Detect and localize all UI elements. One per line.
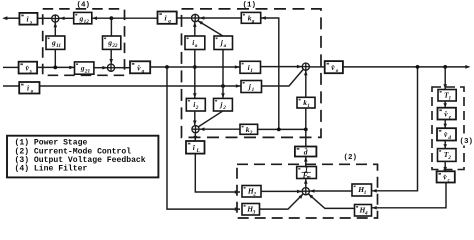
- wire H_2 to sumCM with arrow: [261, 190, 302, 192]
- svg-text:1: 1: [250, 68, 253, 74]
- wire v_d to T_2 with arrow: [444, 141, 446, 149]
- wire k_1 down to node D: [305, 108, 307, 129]
- wire node A to i_g box: [111, 17, 157, 19]
- wire F_m up to d-hat with arrow: [305, 157, 307, 167]
- wire g12 to sum1 with arrow: [60, 17, 74, 19]
- summer SCM: [302, 188, 309, 195]
- svg-text:(4): (4): [77, 2, 91, 10]
- wire i_1 to sumP2 with arrow: [261, 66, 303, 68]
- wire v_s to g21 with node B junction and arrow: [37, 66, 74, 68]
- svg-text:11: 11: [56, 43, 61, 49]
- wire row2 input: [3, 66, 19, 68]
- wire node A down to g22: [110, 18, 112, 36]
- node box v_o: [325, 61, 343, 74]
- gain box k_1: [297, 97, 315, 109]
- wire node A to g12 with arrow: [92, 17, 112, 19]
- gain box g12: [74, 12, 92, 24]
- wire k_a to sumP1 with arrow: [199, 17, 241, 19]
- gain box H_1: [352, 184, 372, 196]
- node box i_s: [19, 13, 37, 26]
- wire g21 to sum2 with arrow: [94, 67, 107, 69]
- wire v_o node down into T_1 with arrow: [444, 67, 446, 90]
- wire row3 i_o long line to j1 with junction at j-column and arrow: [40, 85, 242, 87]
- wire j_a diagonal to sumP1 with arrow: [198, 21, 223, 36]
- svg-text:1: 1: [449, 95, 452, 101]
- svg-text:2: 2: [447, 155, 451, 161]
- wire H_a right then diagonal to sumCM with arrow: [260, 194, 303, 209]
- wire g22 down to sum2 with arrow: [110, 49, 112, 64]
- wire j_2 diagonal down to sumP3: [198, 111, 222, 127]
- summer S1: [52, 15, 59, 22]
- node C junction: [277, 127, 281, 131]
- label (4): [77, 2, 91, 10]
- wire v_e to v_d with arrow: [444, 120, 446, 129]
- wire sumCM up to 1/F_m with arrow: [305, 179, 307, 188]
- gain box g21: [75, 62, 94, 74]
- gain box j_a: [214, 36, 233, 50]
- gain box k_a: [241, 12, 260, 24]
- svg-text:L: L: [196, 148, 200, 154]
- svg-text:g: g: [141, 68, 145, 74]
- gain box H_4: [355, 205, 372, 217]
- wire H_4 left then diagonal to sumCM with arrow: [309, 194, 355, 208]
- svg-text:o: o: [336, 68, 339, 74]
- wire sum2 to v_g box: [115, 67, 130, 69]
- svg-text:(1) Power Stage: (1) Power Stage: [15, 139, 88, 148]
- svg-text:d: d: [448, 135, 451, 141]
- svg-text:22: 22: [111, 43, 118, 49]
- wire T_2 to v_c with arrow: [444, 161, 446, 171]
- node box v_g: [130, 61, 150, 74]
- gain box T_1: [438, 90, 456, 102]
- gain box 1/F_m: [297, 165, 317, 181]
- svg-text:g: g: [167, 19, 171, 25]
- svg-text:12: 12: [84, 19, 90, 25]
- gain box i_2: [186, 98, 205, 111]
- wire v_o output line with junctions and arrow: [343, 66, 468, 68]
- gain box i_1: [240, 61, 261, 74]
- svg-text:2: 2: [195, 105, 199, 111]
- summer SP1: [192, 14, 199, 21]
- wire sumP3 down to i_L with arrow: [194, 133, 196, 141]
- svg-text:(3) Output Voltage Feedback: (3) Output Voltage Feedback: [15, 156, 146, 165]
- svg-text:2: 2: [249, 130, 253, 136]
- label (1): [243, 1, 257, 9]
- gain box H_2: [242, 186, 261, 198]
- node D junction: [304, 127, 308, 131]
- wire row2 v_g into power stage with junctions: [150, 66, 240, 68]
- wire row2 node to i_a and down to i_2: [194, 50, 196, 99]
- gain box H_a: [242, 204, 260, 216]
- node box v_c: [437, 171, 455, 183]
- gain box j_1: [241, 81, 262, 94]
- svg-text:4: 4: [364, 211, 368, 217]
- svg-text:(1): (1): [243, 1, 257, 9]
- wire into k_a right side from vertical drop with arrow: [261, 18, 279, 129]
- wire sumP1 to i_g with arrow: [177, 17, 192, 19]
- gain box T_2: [438, 149, 457, 162]
- node box i_g: [158, 12, 177, 25]
- dashed box (3) output voltage feedback: [432, 87, 464, 170]
- svg-text:a: a: [195, 43, 198, 49]
- wire T_1 to v_e with arrow: [444, 101, 446, 108]
- label (2): [344, 154, 358, 162]
- wire k_2 to sumP3 with arrow: [199, 128, 240, 130]
- wire node B up to g11: [54, 49, 56, 67]
- svg-text:(2): (2): [344, 154, 358, 162]
- summer SP3: [192, 126, 199, 133]
- wire g11 up to sum1 with arrow: [54, 23, 56, 37]
- label (3): [458, 134, 474, 147]
- svg-text:3: 3: [252, 210, 256, 216]
- gain box g11: [46, 36, 65, 49]
- wire H_1 to sumCM with arrow: [309, 190, 352, 192]
- summer S2 filter: [107, 64, 114, 71]
- legend box: [7, 136, 158, 178]
- gain box k_2: [240, 124, 258, 136]
- dashed box (2) current-mode control: [237, 164, 378, 218]
- node box v_d: [437, 128, 456, 141]
- wire i_L down then right into H_2 with arrow: [195, 154, 240, 192]
- node box d-hat: [295, 146, 317, 157]
- legend text: [15, 139, 146, 174]
- node box i_o: [19, 82, 39, 95]
- dashed box (1) power stage: [182, 9, 322, 138]
- summer SP2: [302, 63, 309, 70]
- svg-text:1: 1: [307, 103, 310, 109]
- node box v_s: [19, 62, 37, 75]
- wire v_o node down then left into H_1 with arrow: [372, 67, 418, 191]
- svg-text:m: m: [307, 174, 311, 180]
- wire v_g tap down then right into H_a with arrow: [167, 67, 240, 209]
- node box v_e: [438, 108, 457, 121]
- svg-text:(2) Current-Mode Control: (2) Current-Mode Control: [15, 147, 132, 156]
- wire sumP2 to v_o: [309, 66, 324, 68]
- wire i_2 down to sumP3 with arrow: [194, 111, 196, 126]
- wire k_1 up to sumP2 with arrow: [305, 71, 307, 98]
- gain box j_2: [214, 98, 233, 111]
- wire v_c down then left into H_4 with arrow: [372, 183, 447, 208]
- wire row1 output with arrow: [7, 17, 20, 19]
- wire i_s to sum1: [38, 17, 52, 19]
- svg-text:2: 2: [222, 105, 226, 111]
- svg-text:d̂: d̂: [304, 146, 308, 157]
- node box i_L: [186, 141, 205, 154]
- svg-text:(4) Line Filter: (4) Line Filter: [15, 165, 88, 174]
- wire i_a up to sumP1 with arrow: [194, 22, 196, 36]
- svg-text:2: 2: [252, 192, 256, 198]
- wire node D down to d-hat box: [305, 129, 307, 146]
- svg-text:s: s: [29, 20, 32, 26]
- svg-text:21: 21: [84, 68, 91, 74]
- svg-text:1: 1: [364, 190, 367, 196]
- svg-text:(3): (3): [460, 138, 474, 146]
- svg-text:a: a: [224, 43, 227, 49]
- wire j-column from j_a down through row3 junction to j_2: [222, 50, 224, 99]
- gain box g22: [103, 36, 121, 49]
- svg-text:s: s: [29, 69, 32, 75]
- dashed box (4) line filter: [43, 9, 125, 75]
- wire k_2 right to node C and node D: [258, 128, 306, 130]
- node A junction: [110, 16, 114, 20]
- svg-text:a: a: [252, 18, 255, 24]
- gain box i_a: [185, 36, 205, 50]
- wire j_1 right then diagonal to sumP2: [262, 69, 304, 86]
- wire row3 input: [3, 85, 19, 87]
- svg-text:o: o: [31, 89, 34, 95]
- svg-text:1: 1: [252, 87, 255, 93]
